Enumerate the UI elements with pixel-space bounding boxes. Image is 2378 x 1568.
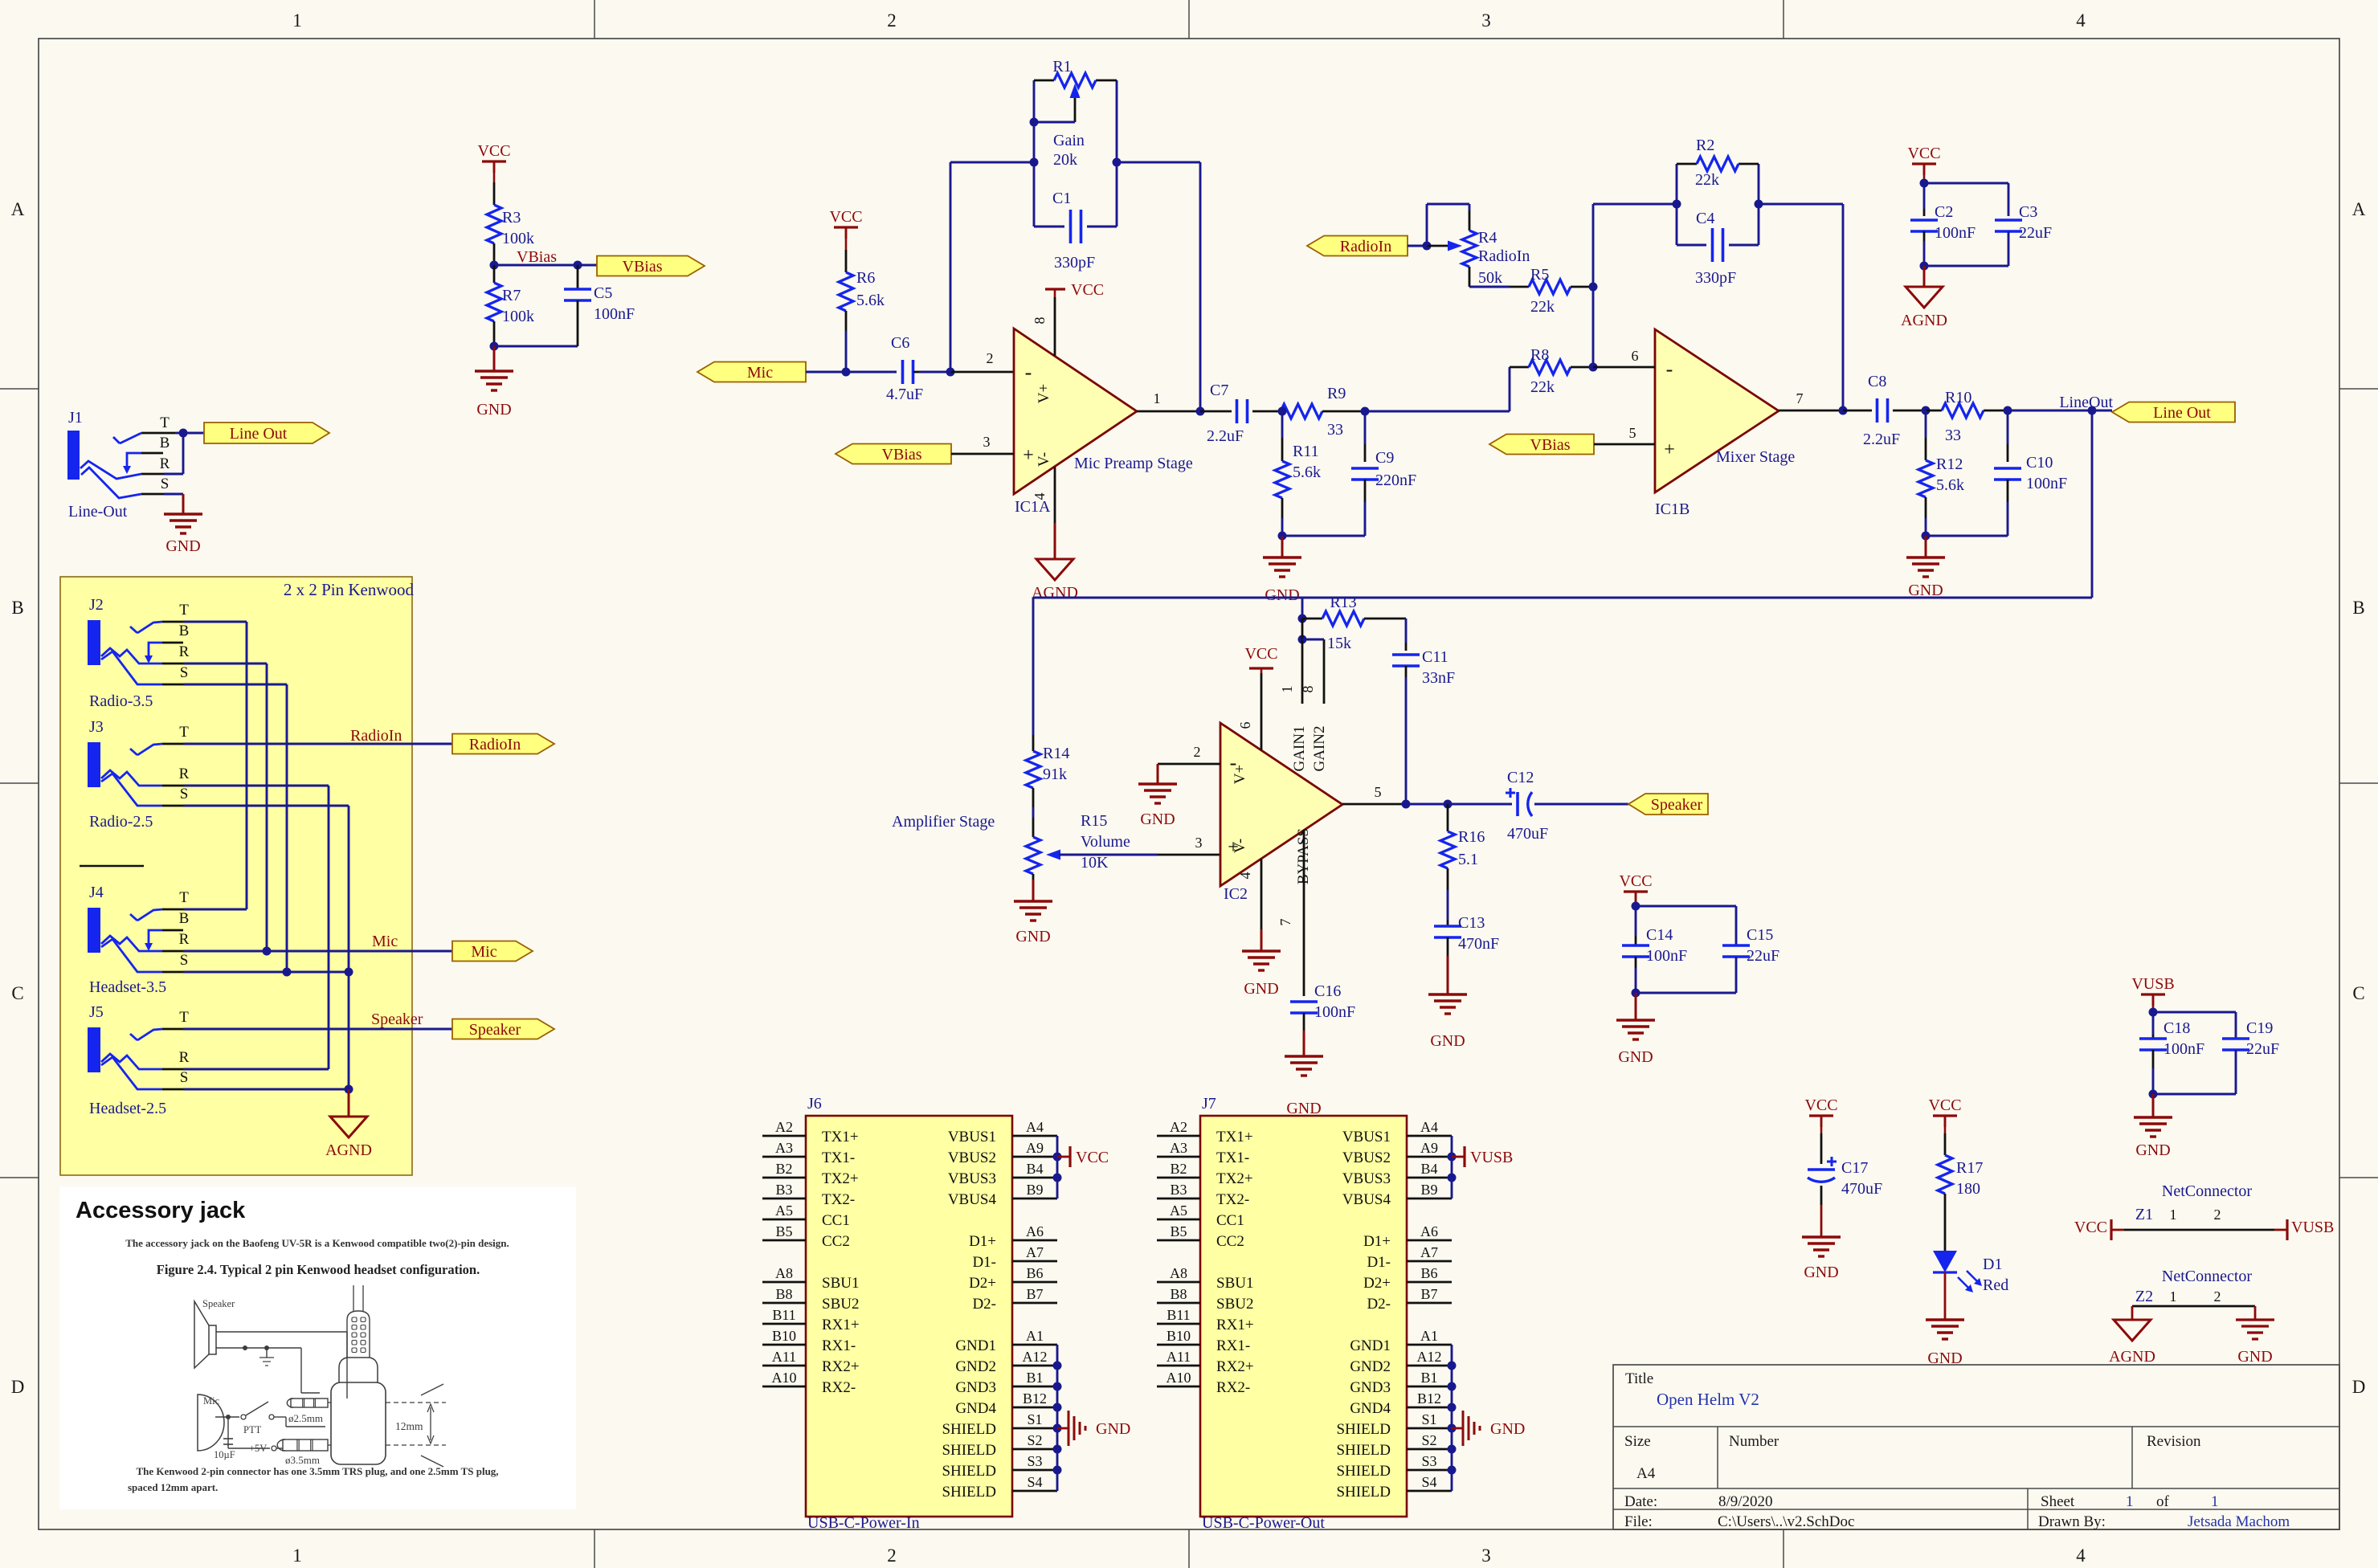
svg-text:A6: A6 — [1026, 1223, 1044, 1239]
svg-text:4: 4 — [1237, 872, 1253, 880]
svg-text:D: D — [2352, 1377, 2366, 1397]
svg-text:Date:: Date: — [1624, 1493, 1657, 1510]
svg-text:A: A — [11, 199, 25, 219]
svg-text:CC2: CC2 — [1216, 1233, 1244, 1250]
svg-text:B3: B3 — [775, 1182, 792, 1198]
svg-text:VBias: VBias — [623, 258, 663, 276]
svg-text:6: 6 — [1632, 348, 1639, 364]
svg-text:GND: GND — [1430, 1032, 1465, 1050]
svg-text:3: 3 — [1481, 10, 1491, 31]
svg-text:C15: C15 — [1747, 926, 1773, 944]
svg-text:GND1: GND1 — [1350, 1337, 1391, 1354]
svg-text:IC2: IC2 — [1224, 885, 1248, 903]
svg-text:J1: J1 — [68, 409, 83, 427]
svg-text:B7: B7 — [1420, 1286, 1437, 1302]
svg-text:TX2+: TX2+ — [1216, 1170, 1253, 1187]
svg-text:ø2.5mm: ø2.5mm — [288, 1412, 323, 1424]
svg-text:A1: A1 — [1420, 1328, 1438, 1344]
svg-text:VCC: VCC — [1244, 645, 1277, 663]
svg-text:C4: C4 — [1696, 210, 1714, 227]
svg-text:33nF: 33nF — [1422, 669, 1455, 687]
svg-text:R16: R16 — [1458, 828, 1485, 846]
svg-text:RadioIn: RadioIn — [469, 736, 521, 753]
svg-text:GND: GND — [1286, 1100, 1321, 1117]
svg-text:GND: GND — [476, 401, 511, 419]
svg-text:4: 4 — [2076, 10, 2086, 31]
svg-text:GND: GND — [1015, 928, 1050, 945]
svg-text:VBUS1: VBUS1 — [948, 1129, 996, 1145]
svg-text:B4: B4 — [1420, 1161, 1437, 1177]
svg-text:12mm: 12mm — [395, 1420, 423, 1432]
svg-text:GND: GND — [1096, 1420, 1130, 1438]
svg-text:Mic: Mic — [747, 364, 773, 382]
svg-text:TX1+: TX1+ — [1216, 1129, 1253, 1145]
svg-text:R3: R3 — [502, 209, 521, 227]
svg-text:R: R — [179, 1049, 190, 1066]
svg-text:C8: C8 — [1868, 373, 1886, 390]
svg-text:R15: R15 — [1081, 812, 1107, 830]
svg-text:S: S — [180, 786, 189, 802]
svg-text:Sheet: Sheet — [2041, 1493, 2075, 1510]
svg-text:5.6k: 5.6k — [1936, 476, 1964, 494]
svg-text:Speaker: Speaker — [202, 1298, 235, 1309]
svg-text:C17: C17 — [1841, 1159, 1868, 1177]
svg-text:Headset-3.5: Headset-3.5 — [89, 978, 166, 996]
svg-text:R13: R13 — [1330, 594, 1356, 611]
svg-text:S4: S4 — [1027, 1474, 1042, 1490]
svg-text:SBU2: SBU2 — [822, 1296, 859, 1313]
svg-text:GND: GND — [2135, 1141, 2170, 1159]
svg-text:-: - — [1666, 357, 1673, 381]
svg-text:Volume: Volume — [1081, 833, 1130, 851]
svg-text:GND: GND — [1804, 1264, 1838, 1281]
svg-text:A12: A12 — [1023, 1349, 1048, 1365]
svg-text:R2: R2 — [1696, 137, 1714, 154]
svg-text:100nF: 100nF — [594, 305, 635, 323]
svg-text:5: 5 — [1629, 425, 1636, 441]
svg-text:B5: B5 — [775, 1223, 792, 1239]
svg-text:File:: File: — [1624, 1513, 1653, 1530]
svg-text:220nF: 220nF — [1375, 472, 1416, 489]
svg-text:2: 2 — [887, 1546, 897, 1566]
svg-text:S: S — [180, 1069, 189, 1086]
svg-text:1: 1 — [1154, 390, 1161, 406]
svg-text:B10: B10 — [772, 1328, 796, 1344]
svg-text:R6: R6 — [856, 269, 875, 287]
svg-text:A12: A12 — [1417, 1349, 1442, 1365]
svg-text:SBU1: SBU1 — [822, 1275, 859, 1292]
svg-text:TX2-: TX2- — [822, 1191, 855, 1208]
svg-text:ø3.5mm: ø3.5mm — [285, 1454, 320, 1466]
svg-text:A3: A3 — [1170, 1140, 1187, 1156]
svg-text:Amplifier Stage: Amplifier Stage — [892, 813, 995, 831]
svg-text:S2: S2 — [1421, 1432, 1436, 1448]
svg-text:GND3: GND3 — [1350, 1379, 1391, 1396]
svg-text:V-: V- — [1036, 452, 1052, 467]
svg-text:22k: 22k — [1530, 378, 1555, 396]
svg-text:Z2: Z2 — [2135, 1288, 2153, 1305]
svg-text:Speaker: Speaker — [469, 1021, 521, 1039]
svg-text:Mic: Mic — [372, 933, 398, 950]
svg-text:100k: 100k — [502, 230, 534, 247]
svg-text:33: 33 — [1327, 421, 1343, 439]
svg-text:A11: A11 — [1167, 1349, 1191, 1365]
svg-text:8/9/2020: 8/9/2020 — [1718, 1493, 1773, 1510]
svg-text:The accessory jack on the Baof: The accessory jack on the Baofeng UV-5R … — [125, 1237, 509, 1249]
svg-text:+: + — [1023, 445, 1034, 466]
svg-text:SBU2: SBU2 — [1216, 1296, 1253, 1313]
svg-text:1: 1 — [2126, 1493, 2134, 1510]
svg-text:J4: J4 — [89, 884, 104, 901]
svg-text:VCC: VCC — [1928, 1096, 1961, 1114]
svg-text:B8: B8 — [1170, 1286, 1187, 1302]
svg-text:22k: 22k — [1530, 298, 1555, 316]
svg-text:GND: GND — [1244, 980, 1278, 998]
svg-text:SHIELD: SHIELD — [942, 1463, 996, 1480]
svg-text:GND3: GND3 — [955, 1379, 996, 1396]
svg-text:R5: R5 — [1530, 266, 1549, 284]
svg-text:2.2uF: 2.2uF — [1863, 431, 1900, 448]
svg-text:VBias: VBias — [1530, 436, 1571, 454]
svg-text:T: T — [160, 414, 170, 431]
svg-text:A7: A7 — [1420, 1244, 1438, 1260]
svg-text:T: T — [179, 602, 189, 619]
svg-text:VBUS2: VBUS2 — [948, 1149, 996, 1166]
svg-text:15k: 15k — [1327, 635, 1351, 652]
svg-text:C19: C19 — [2246, 1019, 2273, 1037]
svg-text:GND2: GND2 — [1350, 1358, 1391, 1375]
svg-text:V-: V- — [1232, 839, 1248, 853]
svg-text:Revision: Revision — [2147, 1433, 2201, 1450]
svg-text:Drawn By:: Drawn By: — [2038, 1513, 2106, 1530]
svg-text:V+: V+ — [1036, 384, 1052, 403]
svg-text:R: R — [160, 455, 170, 472]
svg-text:A: A — [2352, 199, 2366, 219]
svg-text:A8: A8 — [1170, 1265, 1187, 1281]
svg-text:A4: A4 — [1420, 1119, 1438, 1135]
svg-text:AGND: AGND — [1901, 312, 1947, 329]
svg-text:VUSB: VUSB — [2131, 975, 2174, 993]
svg-text:R: R — [179, 931, 190, 948]
svg-text:D: D — [11, 1377, 25, 1397]
svg-text:22uF: 22uF — [2019, 224, 2052, 242]
svg-text:A3: A3 — [775, 1140, 793, 1156]
svg-text:VBUS4: VBUS4 — [948, 1191, 997, 1208]
svg-text:spaced 12mm apart.: spaced 12mm apart. — [128, 1481, 218, 1493]
svg-text:GND: GND — [1490, 1420, 1525, 1438]
svg-text:1: 1 — [2170, 1288, 2177, 1305]
svg-text:A8: A8 — [775, 1265, 793, 1281]
svg-text:GND4: GND4 — [955, 1400, 996, 1417]
svg-text:470nF: 470nF — [1458, 935, 1499, 953]
svg-text:VBUS3: VBUS3 — [1342, 1170, 1391, 1187]
svg-text:C: C — [11, 983, 23, 1003]
svg-text:RadioIn: RadioIn — [1478, 247, 1530, 265]
svg-text:100k: 100k — [502, 308, 534, 325]
svg-text:R7: R7 — [502, 287, 521, 304]
svg-text:B: B — [179, 623, 190, 639]
svg-text:RX2-: RX2- — [1216, 1379, 1250, 1396]
svg-text:C: C — [2352, 983, 2364, 1003]
svg-text:4: 4 — [1032, 493, 1048, 500]
svg-text:R12: R12 — [1936, 455, 1963, 473]
svg-text:R4: R4 — [1478, 229, 1497, 247]
svg-text:C1: C1 — [1052, 190, 1071, 207]
svg-text:S1: S1 — [1421, 1411, 1436, 1427]
svg-text:NetConnector: NetConnector — [2162, 1182, 2253, 1200]
svg-text:J7: J7 — [1202, 1095, 1216, 1113]
svg-text:D2+: D2+ — [1363, 1275, 1391, 1292]
svg-text:SHIELD: SHIELD — [1336, 1421, 1391, 1438]
svg-text:Mic Preamp Stage: Mic Preamp Stage — [1074, 455, 1193, 472]
svg-text:VBUS1: VBUS1 — [1342, 1129, 1391, 1145]
svg-text:91k: 91k — [1043, 766, 1067, 783]
svg-text:3: 3 — [983, 434, 991, 450]
svg-text:TX2+: TX2+ — [822, 1170, 859, 1187]
svg-text:VBUS3: VBUS3 — [948, 1170, 996, 1187]
svg-text:+5V: +5V — [249, 1443, 267, 1454]
svg-text:10K: 10K — [1081, 854, 1109, 872]
svg-text:RX2+: RX2+ — [822, 1358, 860, 1375]
svg-text:RX1+: RX1+ — [1216, 1317, 1254, 1333]
svg-text:2.2uF: 2.2uF — [1207, 427, 1244, 445]
svg-text:Jetsada Machom: Jetsada Machom — [2188, 1513, 2290, 1530]
svg-text:Red: Red — [1983, 1276, 2008, 1294]
svg-text:VCC: VCC — [1076, 1149, 1109, 1166]
svg-text:33: 33 — [1945, 427, 1961, 444]
svg-text:VUSB: VUSB — [1470, 1149, 1513, 1166]
svg-text:B: B — [11, 598, 23, 618]
svg-text:B12: B12 — [1023, 1390, 1047, 1407]
svg-text:Line Out: Line Out — [2153, 404, 2211, 422]
svg-text:Speaker: Speaker — [371, 1011, 423, 1028]
svg-text:5: 5 — [1375, 784, 1382, 800]
svg-text:8: 8 — [1300, 686, 1316, 693]
svg-text:A9: A9 — [1420, 1140, 1438, 1156]
svg-text:A6: A6 — [1420, 1223, 1438, 1239]
svg-text:Number: Number — [1729, 1433, 1779, 1450]
svg-text:B9: B9 — [1026, 1182, 1043, 1198]
svg-text:R9: R9 — [1327, 385, 1346, 402]
svg-text:C10: C10 — [2026, 454, 2053, 472]
svg-text:Figure 2.4. Typical 2 pin Kenw: Figure 2.4. Typical 2 pin Kenwood headse… — [157, 1262, 480, 1277]
svg-text:SHIELD: SHIELD — [942, 1421, 996, 1438]
svg-text:100nF: 100nF — [1935, 224, 1976, 242]
svg-text:Radio-2.5: Radio-2.5 — [89, 813, 153, 831]
svg-text:3: 3 — [1481, 1546, 1491, 1566]
svg-text:D1: D1 — [1983, 1256, 2002, 1273]
svg-text:USB-C-Power-In: USB-C-Power-In — [807, 1514, 920, 1532]
svg-text:A2: A2 — [775, 1119, 793, 1135]
svg-text:A11: A11 — [772, 1349, 796, 1365]
svg-text:S3: S3 — [1421, 1453, 1436, 1469]
svg-text:SHIELD: SHIELD — [1336, 1463, 1391, 1480]
svg-text:GND: GND — [2237, 1348, 2272, 1366]
svg-text:10µF: 10µF — [214, 1449, 235, 1460]
svg-text:J2: J2 — [89, 596, 104, 614]
svg-text:Z1: Z1 — [2135, 1206, 2153, 1223]
svg-text:+: + — [1664, 439, 1675, 460]
svg-text:Mic: Mic — [203, 1395, 220, 1407]
svg-text:RadioIn: RadioIn — [1340, 238, 1391, 255]
svg-text:C7: C7 — [1210, 382, 1228, 399]
svg-text:Radio-3.5: Radio-3.5 — [89, 692, 153, 710]
svg-text:TX1-: TX1- — [822, 1149, 855, 1166]
svg-text:100nF: 100nF — [2026, 475, 2067, 492]
svg-text:7: 7 — [1796, 390, 1804, 406]
svg-text:330pF: 330pF — [1695, 269, 1736, 287]
svg-text:S2: S2 — [1027, 1432, 1042, 1448]
svg-text:TX2-: TX2- — [1216, 1191, 1249, 1208]
svg-text:IC1B: IC1B — [1655, 500, 1690, 518]
svg-text:S1: S1 — [1027, 1411, 1042, 1427]
svg-text:S: S — [161, 476, 170, 492]
svg-text:2: 2 — [987, 350, 994, 366]
svg-text:R: R — [179, 766, 190, 782]
svg-text:B2: B2 — [775, 1161, 792, 1177]
svg-text:-: - — [1025, 361, 1032, 384]
svg-text:R11: R11 — [1293, 443, 1319, 460]
svg-text:A2: A2 — [1170, 1119, 1187, 1135]
svg-text:Headset-2.5: Headset-2.5 — [89, 1100, 166, 1117]
svg-text:Accessory jack: Accessory jack — [76, 1198, 246, 1223]
svg-text:D1-: D1- — [1367, 1254, 1391, 1271]
svg-text:LineOut: LineOut — [2059, 394, 2113, 411]
svg-text:A7: A7 — [1026, 1244, 1044, 1260]
svg-text:V+: V+ — [1232, 765, 1248, 784]
svg-text:B1: B1 — [1026, 1370, 1043, 1386]
svg-text:1: 1 — [292, 10, 302, 31]
svg-text:NetConnector: NetConnector — [2162, 1268, 2253, 1285]
svg-text:Open Helm V2: Open Helm V2 — [1657, 1390, 1759, 1409]
svg-text:VCC: VCC — [1071, 281, 1104, 299]
svg-text:VCC: VCC — [2074, 1219, 2107, 1236]
svg-text:2: 2 — [887, 10, 897, 31]
svg-text:R17: R17 — [1956, 1159, 1983, 1177]
svg-text:TX1+: TX1+ — [822, 1129, 859, 1145]
svg-text:VBias: VBias — [517, 248, 557, 266]
svg-text:2: 2 — [2214, 1207, 2221, 1223]
svg-text:1: 1 — [2211, 1493, 2219, 1510]
svg-text:C11: C11 — [1422, 648, 1448, 666]
svg-text:VCC: VCC — [1804, 1096, 1837, 1114]
svg-text:RX1-: RX1- — [822, 1337, 856, 1354]
svg-text:VBUS4: VBUS4 — [1342, 1191, 1391, 1208]
svg-text:B: B — [179, 910, 190, 927]
svg-text:D2+: D2+ — [969, 1275, 996, 1292]
svg-text:GND: GND — [1140, 811, 1175, 828]
svg-text:R10: R10 — [1945, 389, 1971, 406]
svg-text:RX2+: RX2+ — [1216, 1358, 1254, 1375]
svg-text:SBU1: SBU1 — [1216, 1275, 1253, 1292]
svg-text:Title: Title — [1625, 1370, 1653, 1387]
svg-text:GAIN1: GAIN1 — [1291, 726, 1308, 772]
svg-text:RadioIn: RadioIn — [350, 727, 402, 745]
svg-text:RX1-: RX1- — [1216, 1337, 1250, 1354]
svg-text:3: 3 — [1195, 835, 1203, 851]
svg-text:C12: C12 — [1507, 769, 1534, 786]
svg-text:J3: J3 — [89, 718, 104, 736]
svg-text:C5: C5 — [594, 284, 612, 302]
svg-text:B11: B11 — [772, 1307, 795, 1323]
svg-text:GND4: GND4 — [1350, 1400, 1391, 1417]
svg-text:T: T — [179, 1009, 189, 1026]
svg-text:AGND: AGND — [1032, 584, 1078, 602]
svg-text:Mixer Stage: Mixer Stage — [1716, 448, 1795, 466]
svg-text:470uF: 470uF — [1841, 1180, 1882, 1198]
svg-text:SHIELD: SHIELD — [1336, 1442, 1391, 1459]
svg-text:330pF: 330pF — [1054, 254, 1095, 272]
svg-text:D2-: D2- — [1367, 1296, 1391, 1313]
svg-text:J6: J6 — [807, 1095, 822, 1113]
svg-text:S: S — [180, 664, 189, 681]
svg-text:GND: GND — [1265, 586, 1299, 604]
svg-text:A4: A4 — [1636, 1465, 1656, 1482]
svg-text:CC1: CC1 — [1216, 1212, 1244, 1229]
svg-text:A5: A5 — [775, 1203, 793, 1219]
svg-text:GAIN2: GAIN2 — [1311, 726, 1328, 772]
svg-text:SHIELD: SHIELD — [1336, 1484, 1391, 1501]
svg-text:Speaker: Speaker — [1651, 796, 1703, 814]
svg-text:VCC: VCC — [477, 142, 510, 160]
svg-text:22uF: 22uF — [2246, 1040, 2279, 1058]
svg-text:R1: R1 — [1052, 58, 1071, 76]
svg-text:B8: B8 — [775, 1286, 792, 1302]
svg-text:50k: 50k — [1478, 269, 1502, 287]
svg-text:S: S — [180, 952, 189, 969]
svg-text:The Kenwood 2-pin connector: The Kenwood 2-pin connector has one 3.5m… — [136, 1465, 498, 1477]
svg-text:20k: 20k — [1053, 151, 1077, 169]
svg-text:7: 7 — [1277, 919, 1293, 926]
svg-text:1: 1 — [2170, 1207, 2177, 1223]
svg-text:4.7uF: 4.7uF — [886, 386, 923, 403]
svg-text:C9: C9 — [1375, 449, 1394, 467]
svg-text:R: R — [179, 643, 190, 660]
svg-text:VCC: VCC — [1907, 145, 1940, 162]
svg-text:RX2-: RX2- — [822, 1379, 856, 1396]
svg-text:GND: GND — [1618, 1048, 1653, 1066]
svg-text:S4: S4 — [1421, 1474, 1436, 1490]
svg-text:VUSB: VUSB — [2291, 1219, 2334, 1236]
svg-text:B7: B7 — [1026, 1286, 1043, 1302]
svg-text:T: T — [179, 724, 189, 741]
svg-text:C14: C14 — [1646, 926, 1673, 944]
svg-text:470uF: 470uF — [1507, 825, 1548, 843]
svg-text:B9: B9 — [1420, 1182, 1437, 1198]
svg-text:Line-Out: Line-Out — [68, 503, 128, 521]
svg-text:C2: C2 — [1935, 203, 1953, 221]
svg-text:5.6k: 5.6k — [1293, 463, 1321, 481]
svg-text:180: 180 — [1956, 1180, 1980, 1198]
svg-text:VCC: VCC — [1619, 872, 1652, 890]
svg-text:C6: C6 — [891, 334, 909, 352]
svg-text:VBias: VBias — [882, 446, 922, 463]
svg-text:100nF: 100nF — [1314, 1003, 1355, 1021]
svg-text:CC2: CC2 — [822, 1233, 850, 1250]
svg-text:A10: A10 — [1167, 1370, 1191, 1386]
svg-text:D1+: D1+ — [1363, 1233, 1391, 1250]
svg-text:RX1+: RX1+ — [822, 1317, 860, 1333]
svg-text:22k: 22k — [1695, 171, 1719, 189]
svg-text:22uF: 22uF — [1747, 947, 1779, 965]
svg-text:T: T — [179, 889, 189, 906]
svg-text:SHIELD: SHIELD — [942, 1484, 996, 1501]
svg-text:2 x 2 Pin Kenwood: 2 x 2 Pin Kenwood — [284, 580, 415, 599]
svg-text:5.6k: 5.6k — [856, 292, 885, 309]
svg-text:B3: B3 — [1170, 1182, 1187, 1198]
svg-text:A5: A5 — [1170, 1203, 1187, 1219]
svg-text:C3: C3 — [2019, 203, 2037, 221]
